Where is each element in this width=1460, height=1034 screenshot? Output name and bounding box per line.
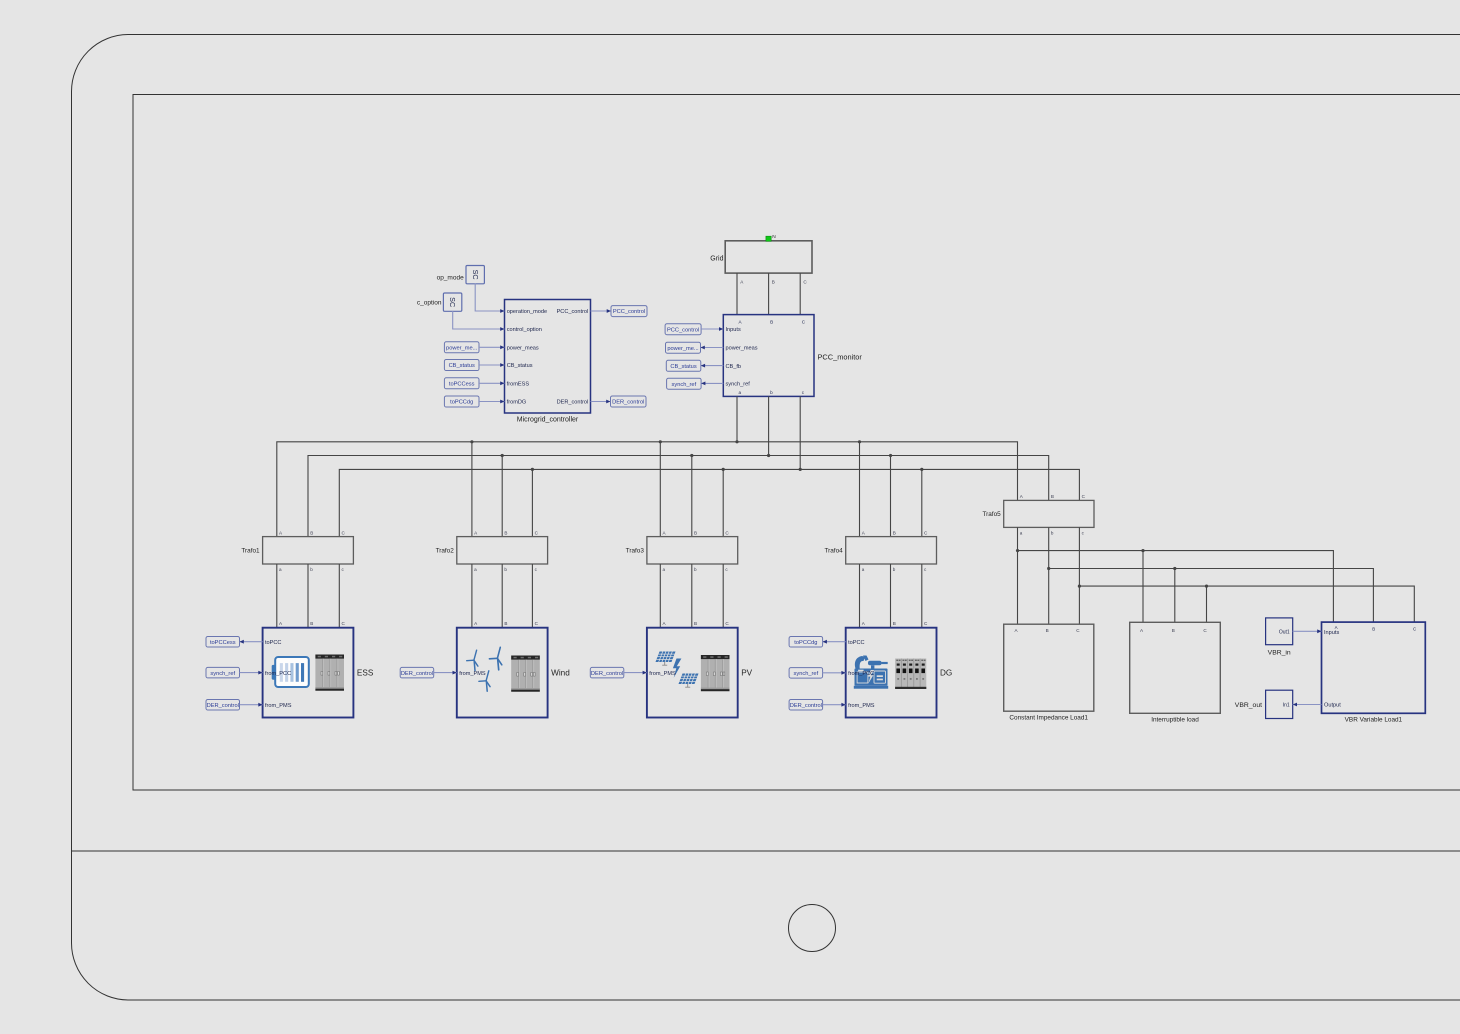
svg-text:PCC_control: PCC_control [557, 309, 589, 315]
svg-text:power_meas: power_meas [726, 346, 758, 352]
svg-text:from_PMS: from_PMS [649, 671, 676, 677]
svg-text:c: c [1082, 531, 1085, 536]
svg-text:A: A [663, 530, 667, 535]
svg-text:a: a [663, 567, 666, 572]
svg-text:CB_status: CB_status [670, 364, 696, 370]
svg-text:a: a [474, 567, 477, 572]
svg-text:b: b [310, 567, 313, 572]
svg-text:a: a [1020, 531, 1023, 536]
svg-text:SC: SC [448, 297, 457, 307]
svg-text:synch_ref: synch_ref [210, 671, 235, 677]
svg-text:PCC_monitor: PCC_monitor [818, 353, 863, 362]
svg-text:A: A [1335, 625, 1338, 630]
svg-text:toPCCdg: toPCCdg [794, 640, 817, 646]
svg-text:A: A [740, 280, 744, 285]
svg-text:Microgrid_controller: Microgrid_controller [517, 416, 579, 423]
svg-text:toPCCess: toPCCess [210, 640, 236, 646]
svg-text:A: A [1014, 628, 1018, 633]
svg-text:B: B [1046, 628, 1049, 633]
svg-text:VBR_out: VBR_out [1235, 702, 1262, 709]
svg-text:A: A [1020, 494, 1024, 499]
svg-text:b: b [1051, 531, 1054, 536]
svg-text:Trafo1: Trafo1 [241, 548, 260, 555]
svg-text:a: a [279, 567, 282, 572]
svg-text:c: c [725, 567, 728, 572]
svg-text:N: N [772, 234, 776, 240]
svg-text:C: C [802, 319, 806, 324]
svg-text:control_option: control_option [507, 327, 542, 333]
svg-text:Output: Output [1324, 703, 1341, 709]
svg-text:Trafo5: Trafo5 [982, 511, 1001, 518]
svg-text:Trafo3: Trafo3 [626, 548, 645, 555]
svg-text:A: A [862, 621, 866, 626]
svg-text:b: b [770, 390, 773, 395]
svg-text:B: B [694, 530, 697, 535]
svg-text:synch_ref: synch_ref [794, 671, 819, 677]
svg-text:synch_ref: synch_ref [672, 382, 697, 388]
svg-text:A: A [474, 530, 478, 535]
svg-text:CB_status: CB_status [507, 363, 533, 369]
svg-text:b: b [694, 567, 697, 572]
svg-text:c: c [924, 567, 927, 572]
svg-text:toPCCdg: toPCCdg [450, 400, 473, 406]
svg-text:C: C [535, 621, 539, 626]
svg-text:C: C [1082, 494, 1086, 499]
svg-text:A: A [279, 621, 283, 626]
svg-text:a: a [739, 390, 742, 395]
svg-text:DER_control: DER_control [557, 400, 589, 406]
svg-text:C: C [342, 621, 346, 626]
svg-text:C: C [1203, 628, 1207, 633]
svg-text:Wind: Wind [551, 668, 570, 677]
svg-text:A: A [1140, 628, 1144, 633]
svg-text:C: C [725, 530, 729, 535]
svg-text:from_PMS: from_PMS [459, 671, 486, 677]
svg-text:b: b [893, 567, 896, 572]
svg-text:B: B [504, 621, 507, 626]
svg-text:C: C [803, 280, 807, 285]
svg-text:power_me...: power_me... [446, 345, 478, 351]
svg-text:power_meas: power_meas [507, 346, 539, 352]
svg-text:Out1: Out1 [1279, 629, 1290, 635]
svg-text:B: B [310, 621, 313, 626]
svg-text:B: B [1172, 628, 1175, 633]
svg-text:C: C [725, 621, 729, 626]
svg-text:C: C [535, 530, 539, 535]
svg-text:A: A [862, 530, 866, 535]
svg-text:Trafo4: Trafo4 [824, 548, 843, 555]
svg-text:a: a [862, 567, 865, 572]
svg-text:c: c [535, 567, 538, 572]
svg-text:B: B [1051, 494, 1054, 499]
svg-text:fromESS: fromESS [507, 382, 530, 388]
svg-text:B: B [1372, 627, 1375, 632]
svg-text:power_me...: power_me... [667, 346, 699, 352]
svg-text:operation_mode: operation_mode [507, 309, 547, 315]
svg-text:toPCC: toPCC [265, 640, 281, 646]
svg-text:B: B [504, 530, 507, 535]
svg-text:c: c [342, 567, 345, 572]
svg-text:A: A [663, 621, 667, 626]
svg-text:c: c [802, 390, 805, 395]
svg-text:Interruptible load: Interruptible load [1151, 717, 1199, 724]
svg-text:B: B [694, 621, 697, 626]
svg-text:A: A [739, 319, 743, 324]
svg-text:C: C [1413, 627, 1416, 632]
svg-text:b: b [504, 567, 507, 572]
svg-text:PCC_control: PCC_control [667, 327, 699, 333]
svg-text:Trafo2: Trafo2 [436, 548, 455, 555]
svg-text:B: B [893, 621, 896, 626]
svg-text:VBR Variable Load1: VBR Variable Load1 [1345, 717, 1403, 724]
svg-text:from_PCC: from_PCC [848, 671, 874, 677]
svg-text:DER_control: DER_control [207, 703, 239, 709]
svg-text:B: B [772, 280, 775, 285]
svg-text:SC: SC [471, 270, 480, 280]
svg-text:fromDG: fromDG [507, 400, 527, 406]
svg-text:DER_control: DER_control [401, 671, 433, 677]
svg-text:Inputs: Inputs [726, 327, 741, 333]
svg-text:B: B [310, 530, 313, 535]
svg-text:A: A [279, 530, 283, 535]
svg-text:DER_control: DER_control [612, 400, 644, 406]
svg-text:CB_fb: CB_fb [726, 364, 742, 370]
svg-text:ESS: ESS [357, 668, 374, 677]
svg-text:toPCCess: toPCCess [449, 381, 475, 387]
svg-text:from_PCC: from_PCC [265, 671, 291, 677]
svg-text:op_mode: op_mode [437, 274, 464, 281]
svg-text:from_PMS: from_PMS [265, 703, 292, 709]
svg-text:DER_control: DER_control [591, 671, 623, 677]
svg-text:PV: PV [741, 668, 752, 677]
svg-text:C: C [1076, 628, 1080, 633]
svg-text:from_PMS: from_PMS [848, 703, 875, 709]
svg-text:A: A [474, 621, 478, 626]
svg-text:Inputs: Inputs [1324, 630, 1339, 636]
svg-text:B: B [893, 530, 896, 535]
svg-text:c_option: c_option [417, 299, 442, 306]
svg-text:toPCC: toPCC [848, 640, 864, 646]
svg-text:Grid: Grid [710, 255, 723, 262]
svg-text:VBR_in: VBR_in [1268, 649, 1291, 656]
svg-text:B: B [770, 319, 773, 324]
svg-text:C: C [342, 530, 346, 535]
svg-text:C: C [924, 530, 928, 535]
svg-text:In1: In1 [1283, 703, 1290, 709]
svg-text:CB_status: CB_status [449, 363, 475, 369]
svg-text:DER_control: DER_control [790, 703, 822, 709]
svg-text:Constant Impedance Load1: Constant Impedance Load1 [1009, 715, 1088, 722]
svg-text:C: C [924, 621, 928, 626]
svg-text:PCC_control: PCC_control [613, 309, 645, 315]
svg-text:DG: DG [940, 668, 952, 677]
svg-text:synch_ref: synch_ref [726, 382, 751, 388]
